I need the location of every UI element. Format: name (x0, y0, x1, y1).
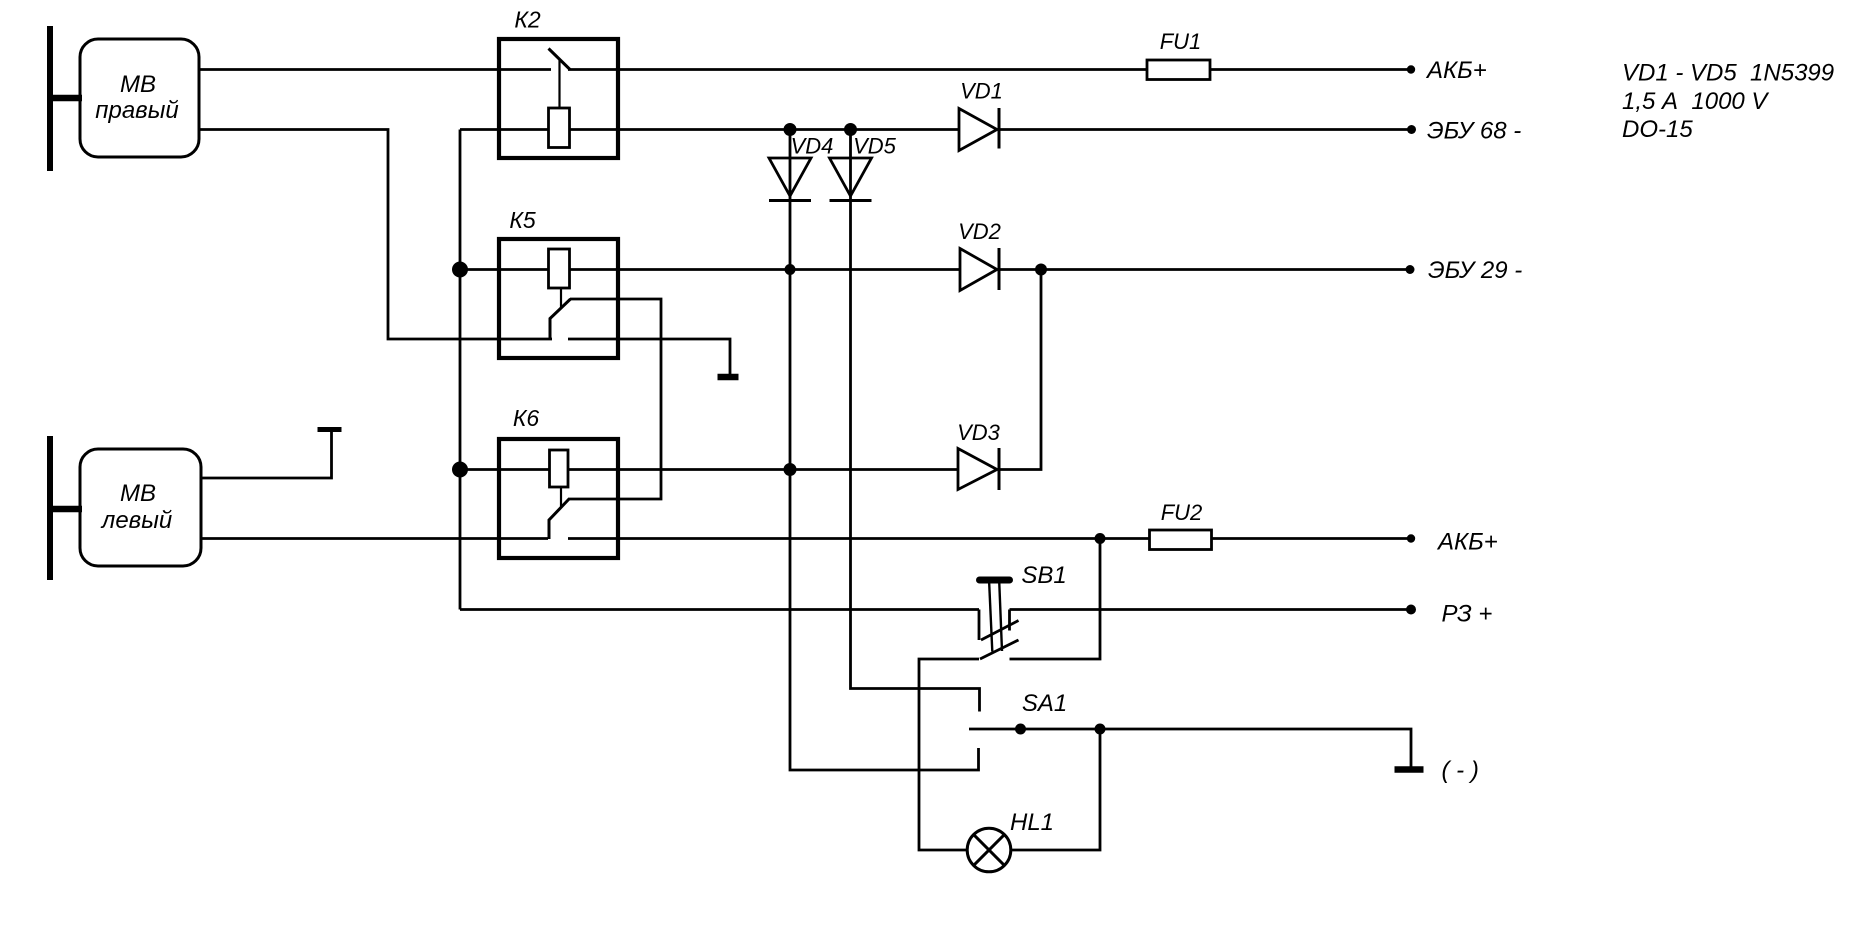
svg-text:К2: К2 (514, 7, 541, 33)
svg-text:МВ: МВ (120, 71, 156, 98)
svg-text:АКБ+: АКБ+ (1425, 57, 1487, 84)
svg-text:SB1: SB1 (1021, 562, 1066, 589)
svg-text:VD4: VD4 (791, 134, 834, 159)
svg-text:DO-15: DO-15 (1622, 116, 1693, 143)
svg-text:SA1: SA1 (1022, 690, 1067, 717)
svg-text:FU1: FU1 (1160, 29, 1202, 54)
svg-text:К6: К6 (513, 405, 540, 431)
svg-text:( - ): ( - ) (1442, 757, 1479, 784)
svg-text:HL1: HL1 (1010, 809, 1054, 836)
svg-text:VD1 - VD5 1N5399: VD1 - VD5 1N5399 (1622, 60, 1834, 87)
svg-text:левый: левый (100, 507, 172, 534)
svg-text:VD5: VD5 (853, 134, 897, 159)
svg-text:РЗ +: РЗ + (1442, 601, 1493, 628)
svg-text:АКБ+: АКБ+ (1436, 529, 1498, 556)
svg-text:VD1: VD1 (960, 79, 1003, 104)
svg-text:FU2: FU2 (1161, 500, 1203, 525)
svg-text:К5: К5 (509, 207, 536, 233)
svg-text:ЭБУ 29 -: ЭБУ 29 - (1428, 257, 1522, 284)
svg-text:1,5 А 1000 V: 1,5 А 1000 V (1622, 88, 1769, 115)
svg-text:МВ: МВ (120, 480, 156, 507)
svg-text:VD3: VD3 (957, 420, 1001, 445)
svg-text:VD2: VD2 (958, 219, 1001, 244)
svg-text:правый: правый (95, 97, 178, 124)
svg-text:ЭБУ 68 -: ЭБУ 68 - (1427, 118, 1521, 145)
